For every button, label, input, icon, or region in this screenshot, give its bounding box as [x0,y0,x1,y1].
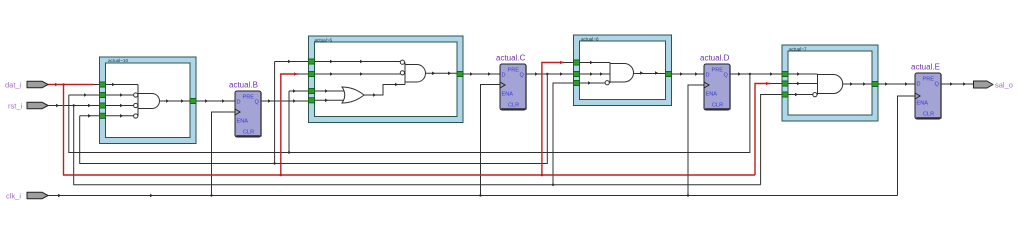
svg-text:Q: Q [935,82,940,88]
svg-text:D: D [917,82,921,88]
svg-text:Q: Q [724,73,729,79]
svg-text:D: D [706,73,710,79]
svg-text:PRE: PRE [712,68,724,74]
svg-text:actual.C: actual.C [496,54,526,63]
svg-text:actual~7: actual~7 [789,46,807,51]
svg-text:PRE: PRE [508,68,520,74]
svg-text:actual~10: actual~10 [108,58,128,63]
svg-text:actual.E: actual.E [911,63,940,72]
svg-text:dat_i: dat_i [5,81,22,90]
svg-text:sal_o: sal_o [995,81,1013,90]
svg-text:ENA: ENA [502,92,514,98]
svg-text:actual.B: actual.B [229,81,258,90]
svg-text:CLR: CLR [243,130,254,136]
svg-text:actual~6: actual~6 [315,37,333,42]
svg-text:CLR: CLR [508,103,519,109]
svg-text:actual.D: actual.D [700,54,730,63]
svg-text:rst_i: rst_i [8,102,23,111]
svg-text:PRE: PRE [243,95,255,101]
svg-text:D: D [502,73,506,79]
svg-text:ENA: ENA [237,119,249,125]
svg-text:PRE: PRE [923,77,935,83]
svg-text:Q: Q [255,100,260,106]
svg-text:CLR: CLR [923,112,934,118]
svg-text:CLR: CLR [712,103,723,109]
svg-text:ENA: ENA [917,101,929,107]
svg-text:clk_i: clk_i [6,192,21,201]
svg-text:Q: Q [520,73,525,79]
svg-text:D: D [237,100,241,106]
svg-text:ENA: ENA [706,92,718,98]
svg-text:actual~8: actual~8 [581,36,599,41]
